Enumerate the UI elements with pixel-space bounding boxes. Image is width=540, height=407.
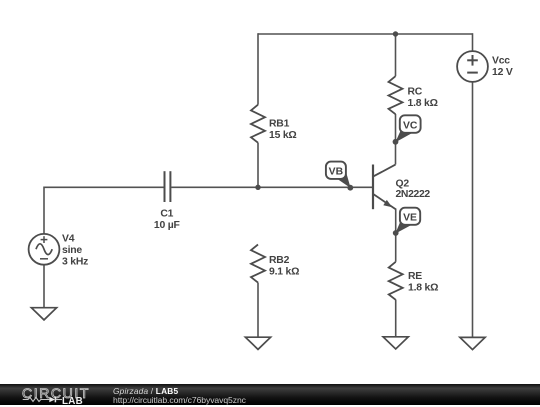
- svg-text:12 V: 12 V: [492, 67, 513, 78]
- ground (V4): [31, 308, 56, 320]
- junction node (top rail / RC): [393, 31, 398, 36]
- resistor RE: [389, 262, 403, 300]
- footer title text: [113, 386, 178, 396]
- svg-text:10 µF: 10 µF: [154, 220, 180, 231]
- wire V4 bottom lead to ground: [43, 265, 45, 309]
- transistor Q2 emitter arrow: [383, 200, 392, 207]
- svg-text:RC: RC: [408, 87, 423, 98]
- resistor RC: [389, 76, 403, 114]
- wire V4 corner down: [43, 187, 45, 235]
- logo CIRCUIT text: [22, 385, 90, 401]
- node probe VE: [393, 208, 420, 236]
- wire RB2 bottom lead to ground: [257, 283, 259, 338]
- svg-text:LAB: LAB: [62, 396, 83, 407]
- ground (RB2): [245, 337, 270, 349]
- transistor Q2: [373, 165, 396, 210]
- wire RC bottom lead to collector: [395, 114, 397, 165]
- capacitor C1: [165, 171, 171, 202]
- node probe VB: [326, 162, 353, 191]
- svg-text:3 kHz: 3 kHz: [62, 257, 88, 268]
- source V4: [29, 234, 60, 265]
- wire RE bottom lead to ground: [395, 300, 397, 338]
- svg-text:RE: RE: [408, 271, 422, 282]
- ground (Vcc): [460, 337, 485, 349]
- wire emitter to RE: [395, 209, 397, 262]
- wire RB1 bottom lead to base node: [257, 143, 259, 188]
- svg-text:V4: V4: [62, 234, 75, 245]
- svg-text:15 kΩ: 15 kΩ: [269, 130, 297, 141]
- svg-text:C1: C1: [160, 208, 173, 219]
- wire C1 right plate to base: [171, 186, 372, 188]
- footer bar: [0, 384, 540, 405]
- svg-text:2N2222: 2N2222: [396, 189, 431, 200]
- resistor RB2: [251, 245, 265, 283]
- wire Vcc bottom to ground: [472, 82, 474, 338]
- svg-text:VC: VC: [403, 120, 418, 131]
- footer url text: [113, 395, 246, 405]
- resistor RB1: [251, 105, 265, 143]
- wire base rail left (V4 corner to C1 left plate): [44, 186, 164, 188]
- node probe VC: [393, 115, 421, 144]
- wire Vcc top lead: [472, 33, 474, 51]
- source Vcc: [457, 51, 488, 82]
- svg-text:Q2: Q2: [396, 178, 410, 189]
- svg-text:VE: VE: [403, 213, 417, 224]
- wire RC top lead from rail: [395, 34, 397, 76]
- svg-text:Vcc: Vcc: [492, 56, 510, 67]
- svg-text:sine: sine: [62, 245, 82, 256]
- wire top rail: [258, 33, 473, 35]
- svg-text:9.1 kΩ: 9.1 kΩ: [269, 267, 299, 278]
- ground (RE): [383, 337, 408, 349]
- wire RB1 top lead: [257, 33, 259, 105]
- junction node (base / RB1-RB2): [255, 185, 260, 190]
- svg-text:RB2: RB2: [269, 255, 290, 266]
- svg-text:RB1: RB1: [269, 118, 290, 129]
- logo LAB line: [0, 395, 110, 407]
- svg-text:1.8 kΩ: 1.8 kΩ: [408, 282, 438, 293]
- svg-text:1.8 kΩ: 1.8 kΩ: [408, 98, 438, 109]
- svg-text:VB: VB: [329, 166, 344, 177]
